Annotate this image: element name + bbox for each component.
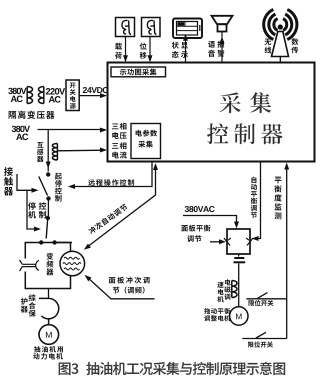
label 互感器 xyxy=(37,142,44,162)
text AC xyxy=(11,96,23,103)
antenna waves left xyxy=(264,10,278,40)
speed-regulation coil xyxy=(232,281,237,298)
wire 远程操作控制 xyxy=(71,163,153,187)
arrowhead 三相电流 into controller xyxy=(100,148,107,153)
wire 冲次自动调节 xyxy=(87,170,156,248)
arrowhead 远程操作控制 left xyxy=(68,184,75,189)
text M in motor M1 xyxy=(46,332,52,338)
arrowhead ctrl to contactor xyxy=(34,227,41,232)
wire box to plates xyxy=(238,254,240,257)
wire main drop mid xyxy=(47,199,49,219)
clutch plate 1 xyxy=(234,257,244,259)
label 无线 col xyxy=(265,39,272,54)
breaker gap mask on VFD left edge xyxy=(23,259,29,272)
switch S1 blade 起停 xyxy=(39,177,48,196)
wire 面板冲次调节 xyxy=(87,277,155,299)
controller U1 box 采集控制器 xyxy=(108,63,315,162)
label 停机 col xyxy=(28,202,36,218)
contactor blade xyxy=(46,220,47,239)
motor M1 circle xyxy=(39,325,59,345)
arrowhead 三相电压 into controller xyxy=(100,128,107,133)
status display screen xyxy=(177,22,198,36)
clutch plate 2 xyxy=(234,261,246,263)
block 电参数采集 box xyxy=(131,124,161,159)
VFD wave 3 xyxy=(64,268,80,270)
wire contactor ctrl upper xyxy=(17,174,35,190)
displacement sensor hook icon xyxy=(147,20,156,34)
wire plates to motor xyxy=(238,264,240,308)
label 报警 col xyxy=(217,41,224,57)
arrowhead ctrl to switch xyxy=(32,188,39,193)
motor M2 circle xyxy=(230,307,248,325)
label 显示 col xyxy=(181,42,188,58)
label 综合保 col xyxy=(29,294,36,317)
antenna waves right xyxy=(283,10,297,40)
label 控制 col xyxy=(39,202,47,218)
arrowhead up to display xyxy=(183,34,188,41)
controller title line1 采集 xyxy=(220,92,272,113)
wire 平衡度监测 xyxy=(286,167,288,339)
text 380V xyxy=(8,88,26,94)
VFD wave 2 xyxy=(63,263,81,265)
label 载荷 xyxy=(115,43,122,59)
wire status display xyxy=(185,39,187,63)
contact right in balance box xyxy=(246,238,253,246)
controller title line2 控制器 xyxy=(207,123,283,144)
arrowhead up to speaker xyxy=(220,37,225,44)
label 隔离变压器 xyxy=(9,111,55,119)
wire antenna to controller xyxy=(279,57,281,63)
label 开关电源 xyxy=(70,83,76,109)
arrowhead 自动平衡调节 into box xyxy=(252,236,259,241)
text AC(2) xyxy=(49,96,61,103)
arrowhead into VFD circle xyxy=(82,244,91,252)
VFD input dot left xyxy=(39,240,43,244)
status display side tick xyxy=(199,25,201,31)
wire VFD top feed xyxy=(55,242,72,244)
label 接触器 xyxy=(4,167,13,195)
limit switch blade lower xyxy=(256,332,266,338)
status display outer xyxy=(173,19,202,39)
speaker horn xyxy=(212,16,233,24)
current transformer CT coil xyxy=(52,144,57,161)
label 电压 r2 xyxy=(112,132,126,139)
limit switch branch lower xyxy=(242,338,286,340)
arrowhead 面板平衡调节 into box xyxy=(219,239,226,244)
arrowhead up into controller xyxy=(153,163,158,170)
transformer T1 secondary winding xyxy=(38,87,43,104)
load sensor hook icon xyxy=(122,20,131,34)
label 变频器 xyxy=(46,253,53,276)
antenna tip dot xyxy=(278,24,283,29)
VFD output circle xyxy=(60,251,85,276)
arrowhead load into controller xyxy=(123,55,128,62)
label 远程操作控制 xyxy=(88,179,134,186)
junction dot contactor top xyxy=(46,216,50,220)
status display grid xyxy=(177,22,198,36)
VFD box 变频器 xyxy=(25,243,70,289)
block 示功图采集 box xyxy=(111,67,166,77)
wire load sensor to controller xyxy=(125,37,127,62)
junction dot switch bottom xyxy=(46,196,50,200)
label 速电机 col xyxy=(217,282,223,303)
wire contactor ctrl lower xyxy=(27,190,38,229)
arrowhead 380VAC into box xyxy=(234,222,239,229)
wire main drop upper xyxy=(47,130,49,172)
caption 图3 xyxy=(59,362,79,375)
label 电流 r4 xyxy=(112,152,126,159)
label 面板冲次调 xyxy=(109,277,150,284)
wire VFD bottom to protector xyxy=(48,289,50,299)
label 电磁调 col xyxy=(224,279,230,300)
label 数传 col xyxy=(291,38,298,53)
wire speaker xyxy=(221,32,223,63)
speaker body xyxy=(218,24,227,31)
label 拖动平衡 xyxy=(204,308,230,314)
wire 24VDC xyxy=(79,95,105,97)
label 位移 xyxy=(140,43,147,59)
label 抽油机用 xyxy=(34,346,63,352)
VFD input dot right xyxy=(52,240,56,244)
breaker/disconnect symbol xyxy=(20,260,39,271)
label 限位开关 lower xyxy=(248,341,273,347)
arrowhead down on main wire xyxy=(46,162,51,169)
antenna tower xyxy=(272,32,289,57)
label 起停控制 xyxy=(55,173,62,202)
label 调节 xyxy=(187,235,201,242)
status display cell xyxy=(178,23,184,26)
arrowhead 平衡度监测 up into controller xyxy=(284,163,289,170)
load sensor box xyxy=(116,18,135,37)
balance contactor box xyxy=(227,229,250,254)
label 节(调频) xyxy=(113,287,145,294)
label 动力电机 xyxy=(33,353,62,359)
label 调整电机 xyxy=(204,315,230,321)
caption main text xyxy=(86,362,285,375)
label 语音 col xyxy=(208,41,215,57)
arrowhead 24VDC into controller xyxy=(100,93,107,98)
junction dot switch top xyxy=(46,172,50,176)
label 三相(电流) r3 xyxy=(112,142,127,149)
label 状态 col xyxy=(172,42,179,58)
contact left in balance box xyxy=(224,238,231,246)
arrowhead into VFD circle 2 xyxy=(83,273,92,281)
text M in motor M2 xyxy=(236,314,241,320)
block 电参数 label xyxy=(136,130,157,137)
label 面板平衡 xyxy=(181,225,210,232)
label 冲次自动调节 xyxy=(88,203,129,235)
wire CT to controller (三相电流) xyxy=(57,149,105,152)
wire 380VAC to controller (三相电压) xyxy=(38,129,106,131)
text 380VAC xyxy=(185,206,215,212)
label 自动平衡调节 xyxy=(251,177,257,218)
block 采集 label xyxy=(138,141,153,148)
limit switch branch upper xyxy=(246,298,286,300)
label 护器 col xyxy=(21,298,28,313)
text 220V xyxy=(46,88,65,95)
wire 面板平衡调节 arrow line xyxy=(210,241,223,243)
label 三相(电压) r1 xyxy=(112,123,127,130)
wire 380VAC xyxy=(183,216,237,226)
label 平衡度监测 xyxy=(274,177,281,220)
text AC (3) xyxy=(16,134,28,141)
switching power supply box 开关电源 xyxy=(66,80,79,111)
label 限位开关 upper xyxy=(249,300,274,306)
arrowhead displacement into controller xyxy=(148,55,153,62)
protector ?-curve 综合保护器 xyxy=(39,298,59,325)
text 24VDC xyxy=(83,87,108,93)
limit switch blade upper xyxy=(258,293,268,299)
wire 自动平衡调节 xyxy=(254,162,261,239)
transformer T1 primary winding xyxy=(27,87,32,104)
VFD wave 1 xyxy=(64,257,80,259)
text 380V (2) xyxy=(12,126,30,132)
block 示功图采集 label xyxy=(120,69,157,76)
displacement sensor box xyxy=(142,18,161,37)
wire displacement sensor to controller xyxy=(149,37,151,62)
